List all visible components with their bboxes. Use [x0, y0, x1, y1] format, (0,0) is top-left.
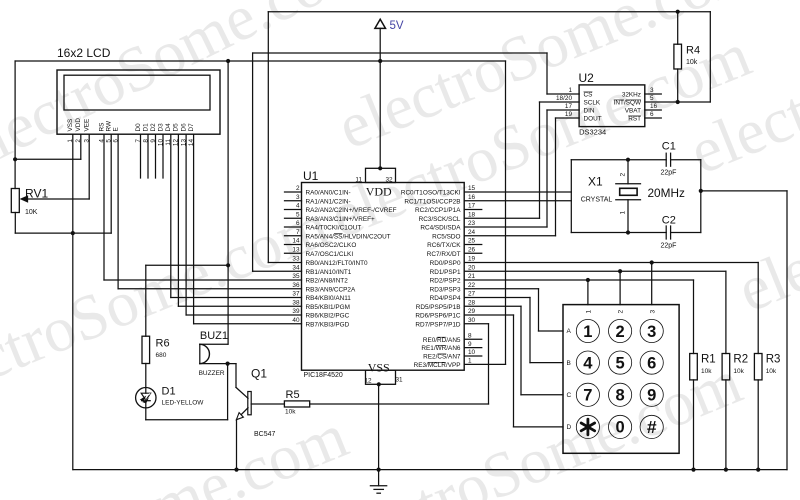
U1 VDD notch: [366, 168, 396, 182]
svg-text:4: 4: [296, 203, 300, 210]
svg-text:C: C: [567, 392, 572, 399]
wire LCD data stub: [162, 134, 164, 178]
wire LCD E down: [117, 134, 119, 289]
svg-text:X1: X1: [588, 175, 603, 189]
wire VDD to 5V: [15, 158, 81, 160]
U1 pin 4 RA2: [285, 209, 302, 211]
svg-text:30: 30: [468, 317, 476, 324]
keypad button 9: [640, 383, 663, 406]
svg-text:RB1/AN10/INT1: RB1/AN10/INT1: [306, 269, 352, 276]
wire rail2 to RB1: [252, 53, 254, 271]
wire crystal top a: [571, 159, 666, 161]
wire DIN vertical: [546, 110, 548, 227]
svg-text:RC4/SDI/SDA: RC4/SDI/SDA: [420, 225, 461, 232]
svg-text:DIN: DIN: [584, 108, 595, 115]
svg-text:R2: R2: [733, 354, 748, 366]
wire VBAT stub: [645, 109, 662, 111]
svg-text:VEE: VEE: [84, 119, 91, 132]
svg-text:RA7/OSC1/CLKI: RA7/OSC1/CLKI: [306, 251, 354, 258]
svg-text:C2: C2: [662, 215, 676, 227]
svg-text:19: 19: [565, 111, 573, 118]
wire R4 bottom: [677, 69, 679, 102]
svg-text:31: 31: [396, 376, 404, 383]
wire R4 top: [677, 12, 679, 45]
wire keypad D vertical: [513, 315, 515, 427]
keypad button 6: [640, 351, 663, 374]
svg-text:RB6/KBI2/PGC: RB6/KBI2/PGC: [306, 313, 350, 320]
svg-text:10K: 10K: [25, 209, 38, 216]
U1 pin 14 RA6: [285, 244, 302, 246]
svg-text:RC3/SCK/SCL: RC3/SCK/SCL: [419, 216, 461, 223]
svg-text:D5: D5: [173, 123, 180, 132]
svg-text:D0: D0: [135, 123, 142, 132]
svg-text:RE2/CS/AN7: RE2/CS/AN7: [423, 354, 461, 361]
svg-text:8: 8: [468, 333, 472, 340]
svg-text:U1: U1: [303, 169, 319, 183]
svg-text:Q1: Q1: [251, 367, 267, 381]
svg-text:R4: R4: [686, 45, 700, 57]
svg-text:37: 37: [292, 291, 300, 298]
capacitor C2 22pF: [665, 226, 667, 239]
svg-text:7: 7: [583, 387, 592, 405]
wire crystal gnd tap: [701, 190, 787, 192]
wire stub: [464, 252, 482, 254]
svg-text:D6: D6: [180, 123, 187, 132]
wire D4 to RB4: [171, 297, 302, 299]
U1 pin 2 RA0: [285, 191, 302, 193]
wire MCLR pullup vertical: [505, 61, 507, 364]
wire LED to collector net: [146, 419, 228, 421]
wire LCD D4 down: [170, 134, 172, 297]
wire right loop: [709, 12, 711, 102]
svg-text:RA5/AN4/SS/HLVDIN/C2OUT: RA5/AN4/SS/HLVDIN/C2OUT: [306, 233, 391, 240]
svg-text:VSS: VSS: [67, 119, 74, 132]
svg-text:1: 1: [568, 87, 572, 94]
svg-text:22pF: 22pF: [661, 243, 677, 250]
wire RD6 to keypad D: [464, 314, 513, 316]
svg-text:RV1: RV1: [25, 187, 48, 201]
svg-text:26: 26: [468, 246, 476, 253]
wire E to RB3: [118, 288, 301, 290]
wire LCD pin3 VEE down: [88, 134, 90, 199]
wire base: [251, 403, 284, 405]
svg-text:1: 1: [620, 211, 627, 215]
svg-text:C1: C1: [662, 141, 676, 153]
svg-text:20: 20: [468, 264, 476, 271]
svg-text:3: 3: [649, 310, 656, 314]
svg-text:19: 19: [468, 256, 476, 263]
svg-text:6: 6: [296, 220, 300, 227]
svg-text:3: 3: [296, 194, 300, 201]
svg-text:2: 2: [616, 323, 625, 341]
svg-text:VSS: VSS: [368, 360, 390, 374]
wire RV1 gnd to RW: [15, 232, 111, 234]
resistor R3 10k: [757, 263, 759, 354]
svg-text:LED-YELLOW: LED-YELLOW: [162, 400, 205, 407]
svg-text:B: B: [567, 360, 571, 367]
svg-text:32KHz: 32KHz: [622, 92, 641, 99]
svg-text:0: 0: [616, 419, 625, 437]
svg-text:27: 27: [468, 291, 476, 298]
svg-text:3: 3: [650, 87, 654, 94]
U1 VSS notch: [366, 370, 396, 384]
svg-text:40: 40: [292, 317, 300, 324]
svg-text:RB3/AN9/CCP2A: RB3/AN9/CCP2A: [306, 286, 356, 293]
svg-text:D4: D4: [165, 123, 172, 132]
svg-text:DOUT: DOUT: [584, 116, 602, 123]
LCD LCD1 16x2: [57, 70, 220, 134]
wire crystal bottom b: [671, 232, 701, 234]
keypad button 7: [576, 383, 599, 406]
wire RD5 to keypad C: [464, 305, 521, 307]
svg-text:BUZ1: BUZ1: [200, 330, 228, 342]
wire LCD D5 down: [177, 134, 179, 306]
svg-text:RC1/T1OSI/CCP2B: RC1/T1OSI/CCP2B: [404, 198, 460, 205]
svg-text:2: 2: [620, 173, 627, 177]
svg-text:A: A: [567, 328, 572, 335]
wire RD2 column1 net: [464, 279, 693, 281]
svg-text:RD6/PSP6/P1C: RD6/PSP6/P1C: [415, 313, 460, 320]
svg-text:SCLK: SCLK: [584, 100, 601, 107]
wire ground rail: [73, 469, 787, 471]
svg-text:RB4/KBI0/AN11: RB4/KBI0/AN11: [306, 295, 352, 302]
wire CS up to rail2: [546, 53, 548, 94]
svg-text:D1: D1: [142, 123, 149, 132]
svg-text:38: 38: [292, 299, 300, 306]
wire MCLR: [464, 363, 505, 365]
wire LCD data stub: [147, 134, 149, 178]
wire second rail (CS net): [253, 52, 547, 54]
svg-text:10k: 10k: [766, 368, 777, 375]
svg-text:D2: D2: [150, 123, 157, 132]
svg-text:RD1/PSP1: RD1/PSP1: [430, 269, 461, 276]
wire RV1 bottom: [14, 213, 16, 234]
svg-text:8: 8: [616, 387, 625, 405]
wire stub: [464, 338, 482, 340]
svg-text:18/20: 18/20: [556, 95, 572, 102]
wire keypad B vertical: [529, 298, 531, 363]
svg-text:16x2 LCD: 16x2 LCD: [57, 46, 111, 60]
svg-text:RE3/MCLR/VPP: RE3/MCLR/VPP: [414, 362, 461, 369]
svg-text:RST: RST: [628, 116, 641, 123]
U1 pin 6 RA4: [285, 226, 302, 228]
microcontroller U1 PIC18F4520: [302, 183, 465, 371]
wire to pin33: [268, 262, 301, 264]
resistor R1 10k: [693, 280, 695, 354]
wire RS to RB2: [104, 279, 302, 281]
svg-text:1: 1: [583, 323, 592, 341]
wire keypad A vertical: [538, 289, 540, 331]
keypad column wires: [587, 280, 589, 305]
U1 pin 7 RA5: [285, 235, 302, 237]
wire INT/SQW to R4: [645, 101, 711, 103]
svg-text:33: 33: [292, 256, 300, 263]
svg-text:22: 22: [468, 282, 476, 289]
svg-text:RA1/AN1/C2IN-: RA1/AN1/C2IN-: [306, 198, 351, 205]
svg-text:20MHz: 20MHz: [648, 186, 685, 200]
keypad KP1 3x4: [563, 305, 679, 454]
svg-text:BC547: BC547: [254, 431, 276, 438]
wire left 5V drop to RV1: [14, 61, 16, 189]
svg-text:RC0/T1OSO/T13CKI: RC0/T1OSO/T13CKI: [401, 190, 461, 197]
svg-text:6: 6: [647, 354, 656, 372]
svg-text:R1: R1: [701, 354, 716, 366]
svg-text:INT/SQW: INT/SQW: [614, 100, 642, 107]
wire RD7 vertical: [488, 324, 490, 404]
Q1 base bar: [248, 392, 251, 415]
svg-text:21: 21: [468, 273, 476, 280]
resistor R2 10k: [725, 271, 727, 353]
resistor R6 680: [145, 265, 147, 336]
svg-text:6: 6: [650, 111, 654, 118]
wire VEE to RV1 wiper: [27, 198, 89, 200]
keypad button 3: [640, 319, 663, 342]
wire collector: [235, 364, 237, 388]
wire 32KHz stub: [645, 93, 662, 95]
ground symbol: [378, 384, 380, 485]
svg-text:D1: D1: [162, 385, 176, 397]
RTC U2 DS3234: [579, 85, 645, 127]
wire SCLK stub: [540, 101, 580, 103]
svg-text:RB2/AN8/INT2: RB2/AN8/INT2: [306, 278, 349, 285]
wire buzzer pin +: [200, 343, 228, 345]
svg-text:3: 3: [647, 323, 656, 341]
wire LCD RW down: [110, 134, 112, 233]
wire RD7 to R5: [464, 323, 488, 325]
wire DIN stub: [547, 109, 579, 111]
svg-text:17: 17: [565, 103, 573, 110]
wire stub: [464, 244, 482, 246]
keypad button 5: [609, 351, 632, 374]
svg-text:RS: RS: [98, 123, 105, 132]
wire stub: [464, 347, 482, 349]
U1 pin 3 RA1: [285, 200, 302, 202]
svg-text:28: 28: [468, 299, 476, 306]
svg-text:9: 9: [468, 341, 472, 348]
keypad button 4: [576, 351, 599, 374]
svg-text:5: 5: [650, 95, 654, 102]
wire RD3 to keypad A: [464, 288, 538, 290]
svg-text:RA6/OSC2/CLKO: RA6/OSC2/CLKO: [306, 242, 357, 249]
wire RST stub: [645, 117, 662, 119]
wire LCD pin2 down: [80, 134, 82, 159]
svg-text:CRYSTAL: CRYSTAL: [581, 197, 613, 204]
svg-text:14: 14: [292, 238, 300, 245]
svg-text:U2: U2: [579, 71, 595, 85]
svg-text:RD2/PSP2: RD2/PSP2: [430, 278, 461, 285]
svg-text:RB0/AN12/FLT0/INT0: RB0/AN12/FLT0/INT0: [306, 260, 368, 267]
wire LCD data stub: [155, 134, 157, 178]
potentiometer RV1 10K: [11, 189, 19, 213]
svg-text:36: 36: [292, 282, 300, 289]
wire 5V rail: [15, 60, 505, 62]
svg-text:12: 12: [365, 377, 373, 384]
wire collector drop: [227, 364, 229, 420]
svg-text:35: 35: [292, 273, 300, 280]
svg-text:RD3/PSP3: RD3/PSP3: [430, 286, 461, 293]
svg-text:VBAT: VBAT: [625, 108, 641, 115]
svg-text:RB5/KBI1/PGM: RB5/KBI1/PGM: [306, 304, 350, 311]
svg-text:RC6/TX/CK: RC6/TX/CK: [427, 242, 461, 249]
wire LCD RS down: [103, 134, 105, 280]
svg-text:RD0/PSP0: RD0/PSP0: [430, 260, 461, 267]
wire stub: [464, 209, 482, 211]
wire D6 to RB6: [186, 314, 301, 316]
wire RC4 to DIN: [464, 226, 547, 228]
wire LCD D7 down: [193, 134, 195, 324]
crystal symbol: [627, 160, 629, 184]
svg-text:2: 2: [296, 185, 300, 192]
wire RC5 to DOUT: [464, 235, 555, 237]
svg-text:2: 2: [618, 310, 625, 314]
svg-text:32: 32: [386, 176, 394, 183]
wire LCD pin1 VSS to ground rail: [72, 134, 74, 469]
wire RC3 to SCLK: [464, 217, 539, 219]
svg-text:5: 5: [296, 211, 300, 218]
wire RD0 column3 net: [464, 262, 758, 264]
U1 pin 13 RA7: [285, 252, 302, 254]
svg-text:680: 680: [156, 352, 167, 359]
wire top rail: [268, 11, 710, 13]
svg-text:D: D: [567, 424, 572, 431]
svg-text:#: #: [647, 417, 657, 437]
capacitor C1 22pF: [665, 153, 667, 166]
svg-text:34: 34: [292, 264, 300, 271]
keypad button *: [576, 415, 599, 438]
svg-text:24: 24: [468, 229, 476, 236]
wire to pin34: [253, 270, 302, 272]
keypad button #: [640, 415, 663, 438]
svg-text:10k: 10k: [701, 368, 712, 375]
wire keypad C vertical: [520, 306, 522, 395]
keypad button 2: [609, 319, 632, 342]
wire 5V to VDD: [379, 28, 381, 168]
U1 pin 5 RA3: [285, 217, 302, 219]
wire RC1 to crystal: [464, 200, 571, 202]
buzzer BUZ1: [199, 344, 201, 363]
svg-text:25: 25: [468, 238, 476, 245]
svg-text:DS3234: DS3234: [579, 127, 606, 136]
svg-text:16: 16: [468, 194, 476, 201]
wire CS stub: [547, 93, 579, 95]
svg-text:R3: R3: [766, 354, 781, 366]
svg-text:D3: D3: [157, 123, 164, 132]
svg-text:22pF: 22pF: [661, 170, 677, 177]
svg-text:11: 11: [355, 176, 362, 183]
svg-text:PIC18F4520: PIC18F4520: [304, 372, 343, 379]
LED D1 LED-YELLOW: [136, 388, 156, 408]
svg-text:10k: 10k: [686, 59, 698, 66]
svg-text:RC2/CCP1/P1A: RC2/CCP1/P1A: [415, 207, 461, 214]
svg-text:13: 13: [292, 246, 300, 253]
wire DOUT stub: [556, 117, 580, 119]
power 5V supply symbol: [375, 19, 386, 28]
svg-text:R5: R5: [286, 389, 300, 401]
svg-text:RE0/RD/AN5: RE0/RD/AN5: [423, 337, 461, 344]
svg-text:10: 10: [468, 349, 476, 356]
wire 5V drop to buzzer: [227, 61, 229, 344]
svg-text:5: 5: [616, 354, 625, 372]
wire stub: [464, 355, 482, 357]
svg-text:RD7/PSP7/P1D: RD7/PSP7/P1D: [415, 321, 460, 328]
svg-text:RD5/PSP5/P1B: RD5/PSP5/P1B: [416, 304, 461, 311]
wire crystal left: [570, 160, 572, 233]
wire LCD D6 down: [185, 134, 187, 315]
svg-text:16: 16: [650, 103, 658, 110]
wire 5V to R6: [146, 264, 228, 266]
svg-text:7: 7: [296, 229, 300, 236]
wire RD4 to keypad B: [464, 297, 530, 299]
wire crystal top b: [671, 159, 701, 161]
keypad button 1: [576, 319, 599, 342]
svg-text:10k: 10k: [285, 409, 296, 416]
Q1 emitter: [237, 408, 248, 419]
wire SCLK vertical: [539, 102, 541, 218]
wire right border gnd: [786, 191, 788, 470]
svg-text:29: 29: [468, 308, 476, 315]
svg-text:15: 15: [468, 185, 476, 192]
svg-text:D7: D7: [188, 123, 195, 132]
svg-text:18: 18: [468, 211, 476, 218]
wire D7 to RB7: [194, 323, 302, 325]
keypad row stubs: [539, 330, 564, 332]
svg-text:1: 1: [586, 310, 593, 314]
svg-text:RC7/RX/DT: RC7/RX/DT: [427, 251, 461, 258]
svg-text:RB7/KBI3/PGD: RB7/KBI3/PGD: [306, 321, 350, 328]
svg-text:RA4/T0CKI/C1OUT: RA4/T0CKI/C1OUT: [306, 225, 362, 232]
svg-text:10k: 10k: [733, 368, 744, 375]
svg-text:R6: R6: [156, 338, 170, 350]
wire top rail to RB0: [267, 12, 269, 263]
wire DOUT vertical: [555, 118, 557, 236]
svg-text:RA3/AN3/C1IN+/VREF+: RA3/AN3/C1IN+/VREF+: [306, 216, 376, 223]
svg-text:4: 4: [583, 354, 593, 372]
svg-text:39: 39: [292, 308, 300, 315]
wire crystal right: [700, 160, 702, 233]
svg-text:VDD: VDD: [75, 118, 82, 132]
wire crystal bottom a: [571, 232, 666, 234]
svg-text:9: 9: [647, 387, 656, 405]
svg-text:CS: CS: [584, 92, 593, 99]
svg-text:RA0/AN0/C1IN-: RA0/AN0/C1IN-: [306, 190, 351, 197]
wire LCD data stub: [140, 134, 142, 178]
wire RD1 column2 net: [464, 270, 726, 272]
svg-text:RD4/PSP4: RD4/PSP4: [430, 295, 461, 302]
svg-text:RE1/WR/AN6: RE1/WR/AN6: [421, 345, 461, 352]
svg-text:17: 17: [468, 203, 476, 210]
svg-text:5V: 5V: [390, 20, 404, 32]
wire D5 to RB5: [178, 305, 301, 307]
keypad button 0: [609, 415, 632, 438]
svg-text:BUZZER: BUZZER: [199, 370, 225, 377]
keypad button 8: [609, 383, 632, 406]
wire emitter to gnd: [236, 420, 238, 470]
svg-text:23: 23: [468, 220, 476, 227]
svg-text:E: E: [112, 127, 119, 131]
svg-text:RA2/AN2/C2IN+/VREF-/CVREF: RA2/AN2/C2IN+/VREF-/CVREF: [306, 207, 397, 214]
svg-text:1: 1: [468, 358, 472, 365]
wire LED bottom: [145, 408, 147, 420]
wire RC0 to crystal: [464, 191, 571, 193]
svg-text:RC5/SDO: RC5/SDO: [432, 233, 460, 240]
svg-text:VDD: VDD: [366, 184, 392, 198]
wire buzzer pin -: [200, 363, 236, 365]
wire R5 to RD7: [310, 403, 489, 405]
